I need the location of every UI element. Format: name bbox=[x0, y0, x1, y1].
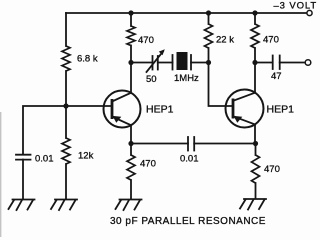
node emitter Q1 bbox=[128, 141, 133, 146]
wire to bypass cap bbox=[23, 106, 66, 154]
trimmer capacitor 50 bbox=[147, 49, 165, 72]
transistor Q1 HEP1 bbox=[104, 91, 141, 128]
wire base Q2 bbox=[209, 63, 234, 107]
wire left branch middle bbox=[65, 71, 67, 138]
ground under emitter R Q1 bbox=[116, 200, 142, 211]
svg-text:HEP1: HEP1 bbox=[267, 104, 295, 116]
terminal -3V supply bbox=[307, 10, 312, 15]
wire R470 to collector node bbox=[130, 46, 132, 63]
transistor Q2 HEP1 bbox=[226, 90, 264, 128]
wire emitter Q1 to coupling cap bbox=[131, 143, 188, 145]
node emitter Q2 bbox=[253, 141, 258, 146]
svg-text:12k: 12k bbox=[78, 151, 94, 162]
node 22k / crystal / base Q2 bbox=[206, 60, 211, 65]
ground under bypass cap bbox=[9, 200, 35, 211]
svg-text:22 k: 22 k bbox=[216, 35, 234, 46]
node top rail / R470 right bbox=[252, 10, 257, 15]
node top rail / 22k bbox=[206, 10, 211, 15]
svg-text:470: 470 bbox=[138, 35, 154, 46]
wire bypass cap to ground bbox=[22, 160, 24, 199]
terminal output bbox=[305, 60, 311, 66]
svg-text:47: 47 bbox=[271, 71, 282, 82]
node top rail / R470 left bbox=[128, 10, 133, 15]
resistor 470 emitter Q2 bbox=[255, 144, 257, 156]
svg-text:470: 470 bbox=[264, 164, 280, 175]
wire left branch lower bbox=[65, 164, 67, 199]
wire emitter Q2 bbox=[254, 124, 256, 143]
wire trimmer to crystal bbox=[158, 62, 173, 64]
ground under 12k bbox=[51, 200, 77, 211]
resistor 6.8k bbox=[62, 46, 70, 71]
wire collector node to trimmer bbox=[131, 62, 152, 64]
capacitor 47 output bbox=[272, 56, 274, 70]
svg-text:470: 470 bbox=[263, 35, 279, 46]
svg-text:6.8 k: 6.8 k bbox=[77, 54, 98, 65]
resistor 12k bbox=[62, 138, 70, 164]
wire coupling cap to emitter Q2 bbox=[194, 143, 255, 145]
wire base Q1 bbox=[66, 105, 112, 107]
capacitor 0.01 bypass bbox=[16, 154, 31, 156]
svg-text:0.01: 0.01 bbox=[35, 154, 54, 165]
wire collector Q2 bbox=[254, 63, 256, 93]
svg-text:50: 50 bbox=[146, 74, 157, 85]
svg-text:470: 470 bbox=[140, 159, 156, 170]
node collector Q2 / output bbox=[252, 60, 257, 65]
svg-text:1MHz: 1MHz bbox=[174, 73, 199, 84]
wire collector node to output cap bbox=[255, 62, 273, 64]
wire crystal to 22k node bbox=[191, 62, 209, 64]
wire left branch upper bbox=[65, 13, 67, 46]
svg-text:30 pF PARALLEL RESONANCE: 30 pF PARALLEL RESONANCE bbox=[110, 216, 266, 227]
resistor 470 emitter Q1 bbox=[130, 144, 132, 156]
node collector Q1 / trimmer bbox=[128, 60, 133, 65]
node base junction Q1 bbox=[63, 103, 68, 108]
resistor 22k bbox=[205, 24, 213, 48]
wire collector Q1 bbox=[130, 63, 132, 93]
resistor 470 collector Q2 bbox=[251, 24, 259, 48]
crystal 1MHz bbox=[173, 52, 192, 70]
capacitor 0.01 coupling bbox=[187, 137, 189, 151]
wire output cap to terminal bbox=[280, 62, 305, 64]
wire emitter Q1 bbox=[130, 125, 132, 143]
wire bbox=[0, 112, 1, 237]
ground under emitter R Q2 bbox=[240, 199, 266, 210]
resistor 470 collector Q1 bbox=[130, 13, 132, 26]
svg-text:HEP1: HEP1 bbox=[146, 104, 174, 116]
svg-text:0.01: 0.01 bbox=[180, 154, 199, 165]
wire top supply rail bbox=[66, 12, 307, 14]
svg-text:–3 VOLT: –3 VOLT bbox=[274, 0, 318, 11]
